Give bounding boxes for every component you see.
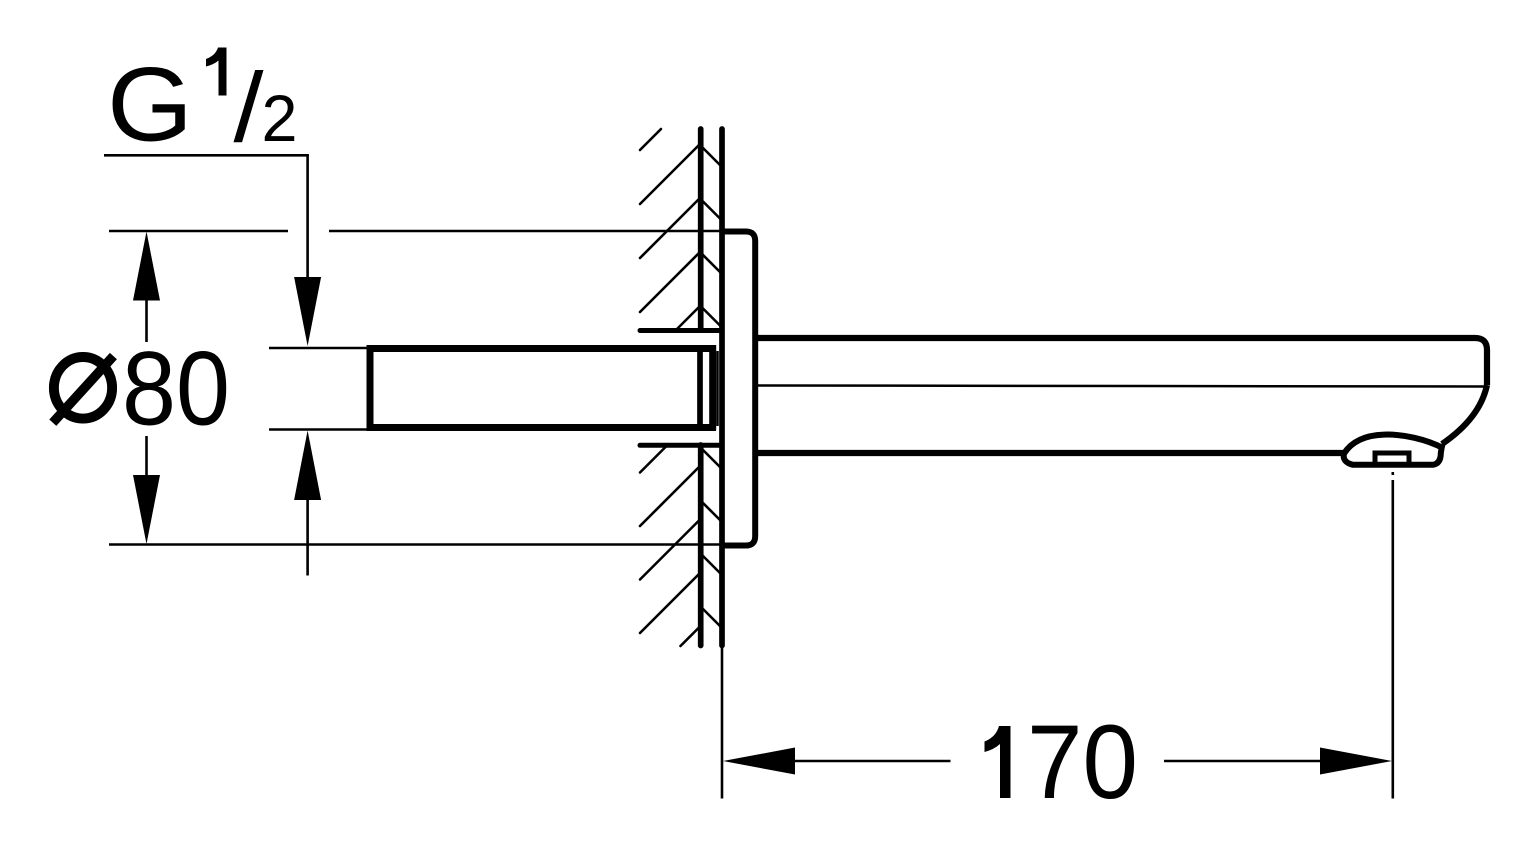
svg-text:80: 80 — [122, 331, 230, 448]
wall front line upper — [698, 129, 704, 330]
G 1/2 leader vertical — [306, 154, 309, 277]
spout middle thin line — [757, 386, 1484, 387]
spout top edge — [755, 338, 1487, 385]
supply pipe end thin line at wall — [716, 351, 719, 426]
dia80 bottom extension line — [109, 543, 722, 546]
dia80 dim line upper tail — [145, 300, 148, 343]
svg-text:70: 70 — [1027, 704, 1138, 821]
aerator insert — [1375, 453, 1409, 463]
wall hatching inner strip upper — [700, 145, 722, 328]
pipe sleeve line at wall — [697, 345, 703, 429]
wall front line lower — [698, 445, 704, 646]
G 1/2 arrow down to pipe top — [294, 277, 321, 346]
dia80 arrow down — [133, 475, 160, 544]
dia80 arrow up — [133, 232, 160, 301]
wall hatching outer upper — [640, 129, 699, 330]
170 arrow right — [1320, 748, 1392, 775]
170 dim line right segment — [1164, 760, 1321, 763]
wall hole top edge — [640, 328, 722, 333]
supply pipe thin bottom extension — [269, 428, 369, 431]
wall back line — [719, 129, 725, 646]
170 right extension line — [1392, 480, 1395, 799]
escutcheon flange — [722, 232, 755, 546]
label G 1/2 — [107, 47, 298, 164]
svg-text:/: / — [234, 53, 265, 163]
wall hatching inner strip lower — [700, 447, 722, 628]
label dia80 diameter symbol — [54, 357, 112, 419]
dia80 top extension line — [109, 230, 288, 233]
svg-text:G: G — [107, 47, 193, 164]
G 1/2 arrow up to pipe bottom — [294, 431, 321, 501]
wall hole bottom edge — [640, 443, 722, 448]
aerator housing ridge — [1344, 435, 1444, 454]
G 1/2 leader underline — [104, 154, 309, 157]
wall hatching outer lower — [640, 447, 699, 646]
170 dim line left segment — [794, 760, 951, 763]
label 170 — [985, 726, 1011, 798]
supply pipe body (G1/2 tailpiece) — [367, 345, 717, 431]
170 left extension line — [721, 645, 724, 799]
dia80 dim line lower tail — [145, 436, 148, 476]
spout bottom edge — [755, 450, 1346, 456]
G 1/2 arrow tail below — [306, 499, 309, 576]
spout tip curve — [1442, 385, 1487, 444]
svg-text:2: 2 — [262, 81, 298, 155]
170 right extension line start dot — [1392, 472, 1395, 475]
aerator housing bottom — [1344, 444, 1443, 465]
supply pipe thin top extension — [269, 347, 369, 350]
170 arrow left — [723, 748, 795, 775]
